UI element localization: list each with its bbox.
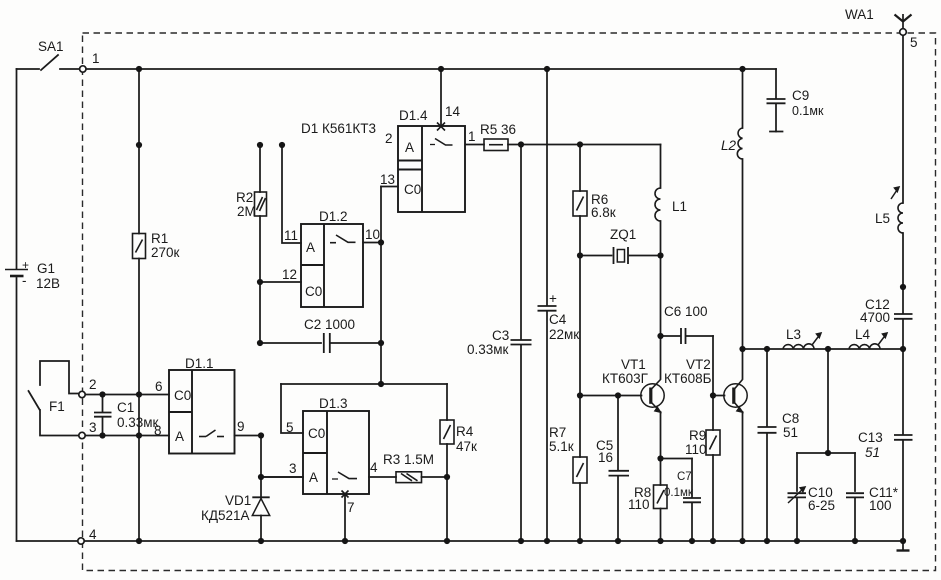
svg-text:C13: C13 xyxy=(858,430,883,445)
svg-text:6-25: 6-25 xyxy=(808,498,835,513)
svg-text:R9: R9 xyxy=(689,428,706,443)
svg-text:14: 14 xyxy=(445,104,461,119)
svg-text:R2: R2 xyxy=(236,190,253,205)
svg-text:ZQ1: ZQ1 xyxy=(610,227,636,242)
svg-text:D1 К561КТ3: D1 К561КТ3 xyxy=(301,121,376,136)
svg-text:16: 16 xyxy=(598,450,613,465)
svg-text:3: 3 xyxy=(89,420,97,435)
svg-text:47к: 47к xyxy=(456,439,477,454)
svg-text:VT1: VT1 xyxy=(621,357,646,372)
svg-text:L5: L5 xyxy=(875,211,890,226)
svg-text:C2 1000: C2 1000 xyxy=(304,317,355,332)
svg-text:12В: 12В xyxy=(36,276,60,291)
svg-text:4: 4 xyxy=(370,460,378,475)
svg-text:C1: C1 xyxy=(117,400,134,415)
svg-text:L1: L1 xyxy=(672,199,687,214)
svg-text:WA1: WA1 xyxy=(845,7,874,22)
svg-text:L3: L3 xyxy=(786,327,801,342)
svg-text:C8: C8 xyxy=(782,411,799,426)
svg-text:1: 1 xyxy=(468,129,476,144)
svg-text:2М: 2М xyxy=(237,204,256,219)
svg-text:110: 110 xyxy=(685,442,707,457)
svg-text:C4: C4 xyxy=(549,312,567,327)
svg-text:8: 8 xyxy=(154,423,162,438)
svg-text:R5 36: R5 36 xyxy=(480,122,516,137)
svg-text:10: 10 xyxy=(365,227,380,242)
svg-text:R1: R1 xyxy=(151,231,168,246)
svg-text:A: A xyxy=(309,470,318,485)
svg-text:2: 2 xyxy=(385,131,393,146)
svg-text:C0: C0 xyxy=(174,388,191,403)
svg-text:5: 5 xyxy=(910,35,918,50)
svg-text:5: 5 xyxy=(286,420,294,435)
svg-text:270к: 270к xyxy=(151,245,180,260)
svg-text:22мк: 22мк xyxy=(549,327,579,342)
svg-text:C3: C3 xyxy=(492,328,509,343)
svg-text:6: 6 xyxy=(155,379,163,394)
svg-text:КТ603Г: КТ603Г xyxy=(602,371,649,386)
svg-text:13: 13 xyxy=(380,172,395,187)
svg-text:51: 51 xyxy=(865,445,880,460)
svg-text:D1.4: D1.4 xyxy=(399,108,428,123)
svg-text:C6 100: C6 100 xyxy=(664,304,708,319)
svg-text:2: 2 xyxy=(89,377,97,392)
svg-text:4: 4 xyxy=(89,527,97,542)
svg-text:C0: C0 xyxy=(404,182,421,197)
svg-text:L4: L4 xyxy=(855,327,871,342)
svg-text:G1: G1 xyxy=(37,261,55,276)
svg-text:A: A xyxy=(306,240,315,255)
svg-text:5.1к: 5.1к xyxy=(549,439,574,454)
svg-text:-: - xyxy=(22,273,27,288)
svg-text:C0: C0 xyxy=(305,284,322,299)
svg-text:R7: R7 xyxy=(549,425,566,440)
svg-text:КД521А: КД521А xyxy=(201,508,250,523)
svg-text:C7: C7 xyxy=(677,471,692,483)
svg-text:R3 1.5M: R3 1.5M xyxy=(383,452,434,467)
svg-text:D1.2: D1.2 xyxy=(319,209,348,224)
svg-text:4700: 4700 xyxy=(860,310,890,325)
svg-text:F1: F1 xyxy=(49,399,65,414)
svg-text:6.8к: 6.8к xyxy=(591,205,616,220)
svg-text:0.33мк: 0.33мк xyxy=(117,415,159,430)
svg-text:+: + xyxy=(22,258,29,272)
svg-text:100: 100 xyxy=(869,498,892,513)
svg-text:11: 11 xyxy=(284,228,298,243)
svg-text:3: 3 xyxy=(289,461,297,476)
svg-text:+: + xyxy=(549,291,557,306)
svg-text:C9: C9 xyxy=(792,88,809,103)
svg-text:R4: R4 xyxy=(456,424,474,439)
svg-text:A: A xyxy=(175,429,184,444)
svg-text:0.33мк: 0.33мк xyxy=(467,342,509,357)
svg-text:110: 110 xyxy=(628,497,650,512)
svg-text:VD1: VD1 xyxy=(225,493,251,508)
svg-text:7: 7 xyxy=(347,500,355,515)
svg-text:D1.1: D1.1 xyxy=(185,356,214,371)
svg-text:9: 9 xyxy=(237,419,245,434)
svg-text:C0: C0 xyxy=(308,426,325,441)
svg-text:КТ608Б: КТ608Б xyxy=(664,371,712,386)
svg-text:0.1мк: 0.1мк xyxy=(792,104,824,118)
svg-text:1: 1 xyxy=(92,51,100,66)
svg-text:L2: L2 xyxy=(721,138,737,153)
svg-text:SA1: SA1 xyxy=(38,39,64,54)
svg-text:D1.3: D1.3 xyxy=(319,396,348,411)
svg-text:12: 12 xyxy=(282,267,297,282)
svg-text:51: 51 xyxy=(783,425,798,440)
svg-text:VT2: VT2 xyxy=(686,357,711,372)
svg-text:A: A xyxy=(405,140,414,155)
svg-text:0.1мк: 0.1мк xyxy=(664,487,694,499)
